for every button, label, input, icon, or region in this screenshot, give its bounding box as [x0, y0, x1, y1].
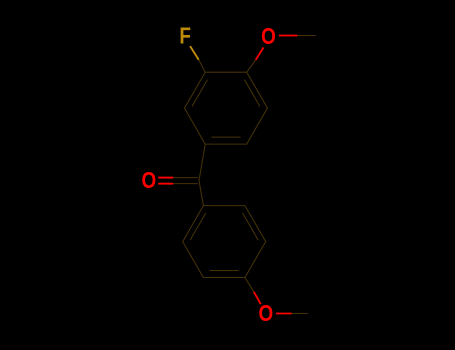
wire O-ring half-bond top (red) — [256, 48, 264, 60]
wire C5'-C6' — [183, 242, 204, 278]
atom O top (methoxy) label — [261, 24, 276, 49]
wire O-ring half-bond bottom (red) — [254, 292, 261, 304]
coloured half-bonds — [158, 36, 297, 314]
wire C6=C1 inner — [212, 136, 241, 138]
wire C4'-C5' — [203, 277, 245, 279]
wire Ck-C1' (carbonyl carbon to ring2) — [199, 181, 203, 206]
wire C6-C1 — [205, 143, 247, 145]
wire C2'-C3' — [245, 206, 266, 242]
wire C6'=C1' inner — [190, 213, 205, 239]
chain bonds — [173, 36, 315, 314]
wire C1-Ck (ring1 to carbonyl carbon) — [199, 144, 205, 181]
wire C2=C3 inner — [192, 80, 207, 106]
svg-text:F: F — [179, 24, 191, 49]
wire C2-C3 — [185, 72, 206, 108]
wire C6'-C1' — [183, 206, 204, 242]
wire C3-C4 — [205, 71, 247, 73]
atom O carbonyl label — [141, 168, 156, 193]
svg-text:O: O — [141, 168, 156, 193]
wire C4'-O dark half — [245, 278, 254, 292]
wire C1-C2 — [185, 108, 206, 144]
svg-text:O: O — [261, 24, 276, 49]
wire O-CH3 top dark half — [297, 35, 315, 37]
atom O bottom (methoxy) label — [258, 301, 273, 326]
svg-text:O: O — [258, 301, 273, 326]
wire F half-bond (goldenrod) — [190, 46, 199, 60]
wire O-CH3 bottom dark half — [292, 313, 308, 315]
wire C4-C5 — [247, 72, 268, 108]
ring 2 (4-methoxyphenyl) skeleton — [183, 206, 266, 278]
wire C3-F dark half — [199, 60, 206, 72]
wire C4'=C5' inner — [210, 270, 239, 272]
wire C1'-C2' — [203, 205, 245, 207]
wire C=O double bond dark halves — [173, 177, 197, 179]
wire C=O double bond red halves — [158, 177, 173, 179]
wire C3'-C4' — [245, 242, 266, 278]
wire C2'=C3' inner — [243, 213, 258, 239]
wire O-CH3 half-bond bottom (red) — [276, 313, 292, 315]
wire C4-O dark half — [247, 60, 256, 72]
atom F label — [179, 24, 191, 49]
ring 1 (3-fluoro-4-methoxyphenyl) skeleton — [185, 72, 268, 144]
wire O-CH3 half-bond top (red) — [279, 35, 297, 37]
wire C5-C6 — [247, 108, 268, 144]
wire C4=C5 inner — [245, 80, 260, 106]
